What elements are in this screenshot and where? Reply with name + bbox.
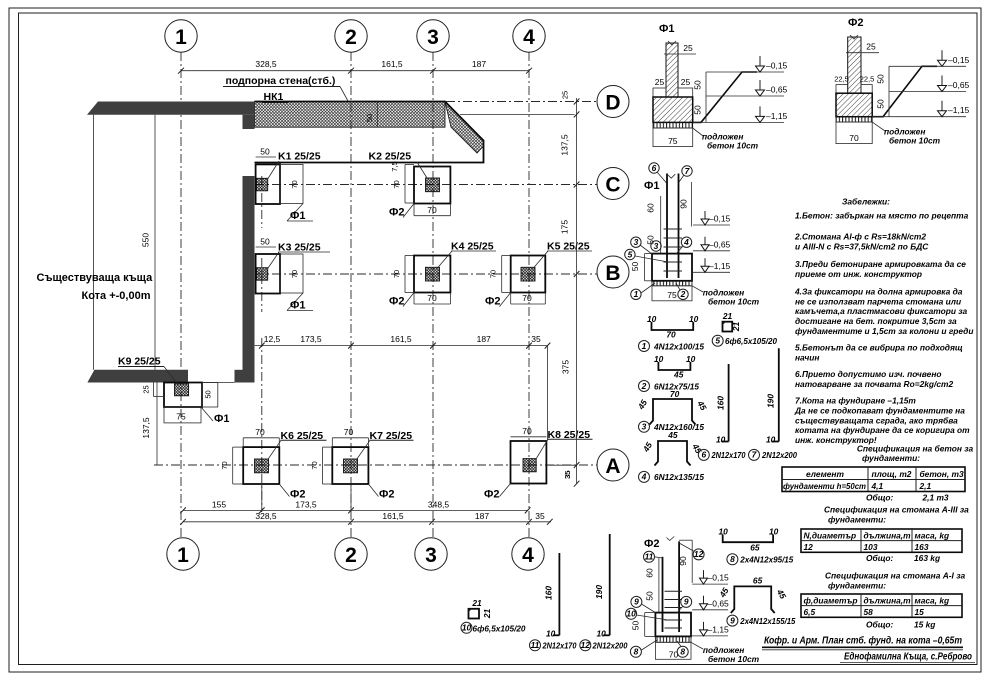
svg-text:50: 50 [645,591,655,601]
note 7 [794,396,970,446]
grid bubble 1 top [165,20,197,52]
svg-text:Кота +-0,00m: Кота +-0,00m [82,290,151,302]
svg-text:70: 70 [522,426,532,436]
table 2 total [866,553,940,563]
section A dim 60 [645,558,659,585]
svg-text:Ф2: Ф2 [389,296,405,308]
svg-text:2N12x170: 2N12x170 [542,641,577,651]
svg-text:–0,15: –0,15 [708,573,730,583]
svg-text:70: 70 [849,133,859,143]
detail Ф1 level line -0,15 [706,56,788,72]
section B-C rebar callout 6 [649,163,667,183]
svg-text:50: 50 [876,74,886,84]
footing K4 outline [414,256,450,293]
svg-text:10: 10 [716,435,726,445]
svg-text:Ф1: Ф1 [659,23,675,35]
grid axis 1 vertical [180,52,182,538]
rebar shape 4 [640,430,704,466]
svg-text:161,5: 161,5 [390,334,412,344]
section A dim 50 footing [631,613,656,637]
section B-C stirrups [664,229,683,271]
table 1 heading [857,444,974,464]
dim 70 K4 bottom [414,293,450,305]
label K4 25/25 [437,241,496,269]
column axis K1/K3/K6 vertical [261,176,263,512]
svg-text:35: 35 [531,334,541,344]
svg-text:Еднофамилна Къща, с.Реброво: Еднофамилна Къща, с.Реброво [844,651,972,663]
rebar shape 1 [647,314,699,340]
svg-text:163 kg: 163 kg [914,553,940,563]
svg-text:фундаментите и 1,5cm за колони: фундаментите и 1,5cm за колони и греди [795,326,973,336]
wall joint line [365,102,377,128]
svg-text:3: 3 [634,237,639,247]
detail Ф2 base outline [836,122,872,144]
svg-text:Ф2: Ф2 [484,489,500,501]
svg-text:6.Прието допустимо изч. почвен: 6.Прието допустимо изч. почвено [795,369,942,379]
grid axis A horizontal [154,464,597,466]
svg-text:котата на фундиране да се кори: котата на фундиране да се коригира от [795,425,970,435]
detail Ф1 column hatched [666,41,678,97]
svg-text:N,диаметър: N,диаметър [804,530,857,540]
rebar callout 7 [749,449,798,460]
svg-text:12: 12 [694,549,704,559]
svg-text:2: 2 [345,26,357,49]
svg-text:подпорна стена(стб.): подпорна стена(стб.) [226,75,336,87]
section B-C callout 2 [676,283,688,299]
detail Ф2 level line -0,65 [889,76,970,92]
svg-text:2x4N12x95/15: 2x4N12x95/15 [739,555,793,565]
svg-text:бетон 10cm: бетон 10cm [708,654,760,664]
svg-text:и АIII-N с Rs=37,5kN/cm2 по БД: и АIII-N с Rs=37,5kN/cm2 по БДС [795,242,929,252]
label Ф1 K9 [201,407,230,425]
svg-text:21: 21 [731,322,741,333]
section B-C callout 4 [676,237,692,254]
svg-text:2,1 m3: 2,1 m3 [922,493,949,503]
grid axis D horizontal [446,101,597,103]
svg-text:70: 70 [666,330,676,340]
ground line right of wall [460,113,575,115]
detail Ф2 footing hatched [836,93,872,117]
svg-text:90: 90 [678,556,688,566]
svg-text:6ф6,5x105/20: 6ф6,5x105/20 [473,623,526,633]
grid bubble 4 top [513,20,545,52]
svg-text:площ, m2: площ, m2 [872,469,912,479]
label Ф2 K7 [368,484,394,501]
grid bubble 2 top [335,20,367,52]
section B-C base outline [652,286,692,301]
svg-text:–1,15: –1,15 [948,105,970,115]
section B-C callout 3 left [631,237,652,254]
svg-text:70: 70 [290,180,299,188]
detail Ф1 dim 25 top [664,43,696,54]
detail Ф2 blinding concrete strip [836,117,872,122]
svg-text:–0,15: –0,15 [709,214,731,224]
detail Ф1 blinding concrete strip [653,122,693,128]
svg-text:ф,диаметър: ф,диаметър [804,595,858,605]
svg-text:5: 5 [715,336,720,346]
svg-text:25: 25 [142,385,151,393]
svg-text:дължина,m: дължина,m [864,530,912,540]
svg-text:550: 550 [141,233,151,247]
dim 70 K7 top [332,427,368,447]
svg-text:60: 60 [646,203,656,213]
svg-text:Общо:: Общо: [866,619,893,629]
svg-text:35: 35 [563,471,572,479]
section A callout 10 [626,608,668,620]
label Ф2 K4 [389,293,414,308]
svg-text:3: 3 [427,26,439,49]
svg-text:–0,15: –0,15 [766,61,788,71]
rebar callout 1 [639,341,705,352]
svg-text:10: 10 [686,354,696,364]
svg-text:50: 50 [693,105,703,115]
svg-text:21: 21 [471,598,482,608]
svg-text:70: 70 [489,270,498,278]
section B-C level -0,65 [693,237,731,251]
svg-text:съществуващата сграда, ако тря: съществуващата сграда, ако трябва [795,416,958,426]
detail Ф1 dim 50 50 vertical [693,72,707,122]
section B-C dim 60 [646,196,661,228]
svg-text:2N12x200: 2N12x200 [761,450,797,460]
section B-C rebar callout 7 [679,166,692,182]
svg-text:2x4N12x155/15: 2x4N12x155/15 [739,616,795,626]
svg-text:137,5: 137,5 [141,417,151,439]
dim 70 K8 top [511,426,547,437]
section A callout 9 right [677,596,692,613]
rebar callout 6 [698,449,745,460]
svg-text:1.Бетон: забъркан на място по: 1.Бетон: забъркан на място по рецепта [795,211,969,221]
svg-text:3: 3 [425,544,437,567]
svg-text:2,1: 2,1 [919,481,932,491]
retaining wall bold outline [255,102,484,163]
svg-text:фундаменти:: фундаменти: [828,515,886,525]
rebar callout 12 [580,640,628,651]
svg-text:Ф2: Ф2 [379,489,395,501]
svg-text:Забележки:: Забележки: [842,197,890,207]
dim 70 K5 left [489,256,511,293]
svg-text:–1,15: –1,15 [708,624,730,634]
label Ф1 K1 [287,204,313,223]
svg-text:25: 25 [655,77,665,87]
svg-text:25: 25 [866,42,876,52]
svg-text:12,5: 12,5 [264,334,281,344]
svg-text:10: 10 [462,623,472,633]
svg-text:7.Кота на фундиране –1,15m: 7.Кота на фундиране –1,15m [795,396,916,406]
svg-text:35: 35 [535,511,545,521]
rebar callout 11 [530,640,577,651]
note 4 [794,287,973,337]
section A base outline [655,642,691,659]
rebar shape 9 [717,576,789,613]
svg-text:4: 4 [522,544,534,567]
svg-text:60: 60 [645,568,655,578]
section A dim 50 upper [645,585,659,612]
section B-C blinding strip [652,281,692,286]
column K5 hatched [521,267,535,281]
svg-text:камъчета,а пластмасови фиксато: камъчета,а пластмасови фиксатори за [795,306,968,316]
svg-text:8: 8 [680,647,685,657]
svg-text:2: 2 [345,544,357,567]
svg-text:25: 25 [683,43,693,53]
svg-text:бетон 10cm: бетон 10cm [707,141,759,151]
detail Ф1 terrain line [693,72,757,122]
label K6 25/25 [268,430,327,460]
svg-text:45: 45 [673,370,684,380]
svg-text:–0,65: –0,65 [709,239,731,249]
rebar callout 9 list [727,615,796,626]
svg-text:21: 21 [722,311,733,321]
section A blinding strip [655,636,691,642]
section A vertical bars [663,537,680,633]
grid axis 3 vertical [432,52,434,538]
svg-text:160: 160 [716,396,726,410]
section B-C dim 50 [646,228,661,254]
detail Ф2 blinding note [872,122,940,145]
detail Ф2 column hatched [848,35,861,93]
svg-text:160: 160 [544,586,554,600]
section B-C footing outline [652,254,692,281]
svg-text:7: 7 [752,450,757,460]
rebar callout 5 [712,335,777,346]
grid bubble D [597,86,629,118]
svg-text:70: 70 [310,461,319,469]
svg-text:375: 375 [561,360,571,374]
svg-text:175: 175 [560,220,570,234]
svg-text:Ф1: Ф1 [644,180,660,192]
label K9 25/25 [118,356,178,385]
svg-text:натоварване за почвата Ro=2kg/: натоварване за почвата Ro=2kg/cm2 [795,379,953,389]
svg-text:фундаменти h=50cm: фундаменти h=50cm [783,481,867,491]
dim 70 K6 left [220,447,243,484]
detail Ф2 level line -0,15 [889,50,970,66]
dim 137,5 left chain [141,383,157,465]
label Ф2 K2 [389,204,414,219]
dim 50 K1 [256,147,276,158]
bottom dimension row 2 [180,519,552,525]
section B-C vertical bars [667,174,679,279]
svg-text:12: 12 [804,542,814,552]
svg-text:25: 25 [561,91,570,99]
svg-text:–0,65: –0,65 [766,85,788,95]
svg-text:9: 9 [730,615,735,625]
section B-C callout 1 [631,283,655,299]
svg-text:Спецификация на бетон за: Спецификация на бетон за [857,444,974,454]
svg-text:–0,65: –0,65 [948,80,970,90]
svg-text:Ф1: Ф1 [290,210,306,222]
section B-C dim 50 footing [630,254,652,281]
svg-text:75: 75 [176,412,186,422]
svg-text:7: 7 [685,166,690,176]
svg-text:70: 70 [344,427,354,437]
table 1 concrete spec [782,467,965,492]
svg-text:50: 50 [260,147,270,157]
footing K2 outline [414,167,450,204]
grid axis C horizontal [255,184,597,186]
svg-text:10: 10 [647,314,657,324]
grid bubble C [597,168,629,200]
table 2 steel A-III spec [801,529,962,552]
label Ф2 K8 [484,484,511,501]
detail Ф2 terrain line [872,66,937,116]
svg-text:10: 10 [626,609,636,619]
svg-text:4,1: 4,1 [871,481,884,491]
section A callout 12 [679,543,704,560]
label K3 25/25 [268,242,330,269]
svg-text:4: 4 [683,237,689,247]
svg-text:–0,65: –0,65 [708,598,730,608]
svg-text:2: 2 [680,289,686,299]
svg-text:4.За фиксатори на долна армиро: 4.За фиксатори на долна армировка да [794,287,963,297]
svg-text:10: 10 [689,314,699,324]
svg-text:161,5: 161,5 [381,59,403,69]
svg-text:бетон, m3: бетон, m3 [920,469,964,479]
svg-text:K2 25/25: K2 25/25 [369,151,412,163]
label Ф1 K3 [287,293,313,312]
svg-text:103: 103 [864,542,878,552]
label Ф2 K5 [485,293,511,308]
dim 70 K2 bottom [414,204,450,216]
svg-text:4N12x100/15: 4N12x100/15 [653,342,704,352]
svg-text:11: 11 [645,552,654,562]
svg-text:Да не се подкопават фундаменти: Да не се подкопават фундаментите на [794,406,965,416]
svg-text:45: 45 [667,430,678,440]
bottom dimension row 1 [180,484,530,513]
svg-text:бетон 10cm: бетон 10cm [889,136,941,146]
svg-text:50: 50 [365,114,374,122]
label K8 25/25 [536,429,593,459]
rebar callout 8 list [727,554,794,565]
svg-text:бетон 10cm: бетон 10cm [708,297,760,307]
grid bubble A [597,449,629,481]
svg-text:70: 70 [427,205,437,215]
svg-text:70: 70 [220,461,229,469]
svg-text:Ф2: Ф2 [644,538,660,550]
svg-text:348,5: 348,5 [428,499,450,509]
svg-text:1: 1 [642,341,647,351]
svg-text:70: 70 [670,389,680,399]
footing K8 outline [511,441,547,484]
svg-text:3: 3 [654,241,659,251]
grid axis 2 vertical [350,52,352,538]
rebar callout 10 list [461,622,526,633]
svg-text:6: 6 [701,450,706,460]
column K8 hatched [523,459,536,472]
section B-C blinding note [692,286,760,307]
svg-text:187: 187 [472,59,486,69]
section A callout 11 [644,551,663,562]
svg-text:2.Стомана АI-ф с Rs=18kN/cm2: 2.Стомана АI-ф с Rs=18kN/cm2 [794,232,926,242]
svg-text:65: 65 [753,576,763,586]
svg-text:90: 90 [679,199,689,209]
svg-text:10: 10 [654,354,664,364]
svg-text:70: 70 [427,293,437,303]
footing K9 outline [164,383,218,423]
svg-text:2N12x170: 2N12x170 [711,450,746,460]
rebar shape 11 [544,553,560,638]
svg-text:4: 4 [523,26,535,49]
svg-text:Ф2: Ф2 [389,207,405,219]
svg-text:190: 190 [766,394,776,408]
drawing title [762,635,963,650]
section B-C level -1,15 [693,258,731,272]
svg-text:50: 50 [693,80,703,90]
dim 70 K2 left [390,161,414,203]
svg-text:K9 25/25: K9 25/25 [118,356,161,368]
grid bubble 3 bottom [415,538,447,570]
section A blinding note [691,642,760,664]
svg-text:21: 21 [482,609,492,620]
svg-text:3: 3 [642,422,647,432]
svg-text:6ф6,5x105/20: 6ф6,5x105/20 [725,336,777,346]
detail Ф1 dim 25 25 ledges [655,77,691,87]
svg-text:65: 65 [750,542,760,552]
house left edge line [93,115,95,370]
column K6 hatched [255,459,269,473]
svg-text:10: 10 [769,527,779,537]
svg-text:11: 11 [531,640,540,650]
svg-text:A: A [605,455,620,478]
svg-text:328,5: 328,5 [255,511,277,521]
rebar callout 2 [639,381,700,392]
svg-text:2: 2 [641,381,647,391]
svg-text:маса, kg: маса, kg [915,595,950,605]
svg-text:Спецификация на стомана А-I за: Спецификация на стомана А-I за [825,571,965,581]
detail Ф1 base outline [653,128,693,147]
svg-text:50: 50 [260,237,270,247]
section A footing outline [655,613,691,637]
svg-text:173,5: 173,5 [295,499,317,509]
label НК1 [262,91,288,103]
existing house bottom wall [87,370,188,383]
grid bubble 2 bottom [335,538,367,570]
svg-text:елемент: елемент [806,469,844,479]
svg-text:8: 8 [634,647,639,657]
svg-text:D: D [605,92,620,115]
table 3 steel A-I spec [801,594,962,617]
svg-text:Общо:: Общо: [866,493,893,503]
svg-text:9: 9 [634,597,639,607]
svg-text:328,5: 328,5 [255,59,277,69]
rebar shape 10 stirrup symbol [469,598,493,619]
label K1 25/25 [268,151,321,180]
column K2 hatched [426,178,440,192]
svg-text:50: 50 [630,262,640,272]
svg-text:1: 1 [177,544,189,567]
column K1 hatched [257,178,268,191]
grid bubble B [597,256,629,288]
svg-text:187: 187 [477,334,491,344]
svg-text:дължина,m: дължина,m [864,595,912,605]
right dim chain [574,98,580,487]
detail Ф1 footing hatched [653,97,693,122]
svg-text:15: 15 [915,607,925,617]
footing K7 outline [332,447,368,484]
svg-text:187: 187 [475,511,489,521]
table 1 total [866,493,949,503]
dim 50 K3 [256,237,276,248]
svg-text:22,5: 22,5 [860,75,875,84]
svg-text:50: 50 [631,621,641,631]
rebar shape 6 [716,364,729,445]
note 5 [795,343,963,363]
svg-text:Ф1: Ф1 [290,300,306,312]
svg-text:10: 10 [719,527,729,537]
svg-text:70: 70 [392,180,401,188]
svg-text:70: 70 [522,293,532,303]
svg-text:не се използват парчета стоман: не се използват парчета стомана или [795,297,961,307]
section A callout 9 left [631,596,656,613]
note 3 [795,259,966,279]
